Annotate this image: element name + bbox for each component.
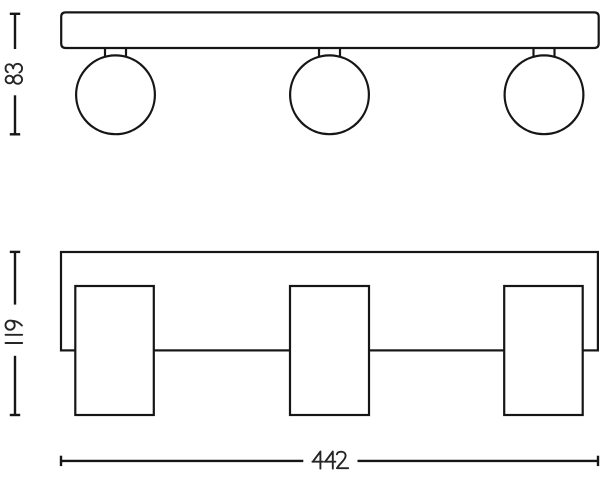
dimension 442 (overall width) <box>61 456 598 466</box>
stem of spot 1 <box>105 48 126 57</box>
spot sphere 1 <box>76 55 155 134</box>
top view: ceiling mounting bar <box>61 12 599 48</box>
spot sphere 3 <box>505 55 584 134</box>
stem of spot 3 <box>534 48 555 57</box>
dimension 83 (top view height) <box>10 14 20 135</box>
spot cylinder 1 <box>75 286 154 415</box>
spot cylinder 3 <box>504 286 583 415</box>
dimension label 442 <box>312 452 348 469</box>
spot sphere 2 <box>290 55 369 134</box>
front view: mounting bar <box>61 252 598 350</box>
dimension label 119 <box>6 321 23 343</box>
stem of spot 2 <box>319 48 340 57</box>
dimension label 83 <box>6 64 23 84</box>
spot cylinder 2 <box>290 286 369 415</box>
dimension 119 (front view height) <box>10 252 20 415</box>
